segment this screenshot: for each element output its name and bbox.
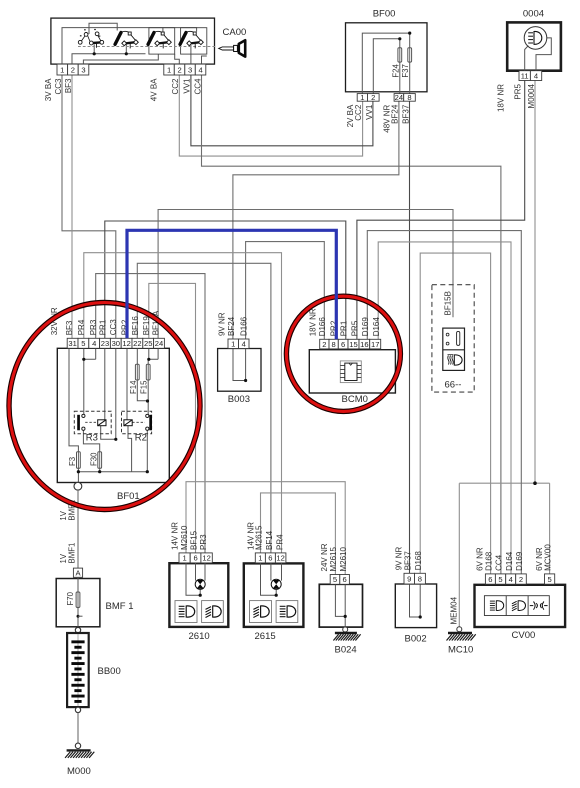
svg-text:M2615: M2615 bbox=[254, 525, 263, 550]
svg-text:8: 8 bbox=[418, 574, 422, 583]
svg-text:F37: F37 bbox=[401, 64, 410, 77]
wire BF16 (BF01 pin22 to 2615 pin6) bbox=[137, 263, 271, 553]
wire R2 coil out bbox=[128, 426, 132, 472]
svg-text:2: 2 bbox=[322, 340, 326, 349]
fuse F30 bbox=[98, 452, 102, 469]
svg-text:15: 15 bbox=[349, 340, 357, 349]
svg-text:VV1: VV1 bbox=[365, 104, 374, 120]
svg-text:F30: F30 bbox=[89, 452, 98, 466]
svg-text:BF19: BF19 bbox=[142, 316, 151, 336]
switch S1 (rotary light switch) bbox=[78, 29, 103, 48]
svg-text:25: 25 bbox=[144, 339, 152, 348]
headlamp unit 2610 bbox=[169, 563, 228, 627]
fuse F15 bbox=[146, 364, 150, 380]
ground circle MC10 bbox=[457, 627, 462, 632]
svg-text:BF3: BF3 bbox=[64, 78, 73, 93]
connector B002 pins bbox=[404, 573, 425, 584]
wire BF19 (BF01 pin25 to 2610 pin6) bbox=[149, 283, 196, 553]
wire MCV00 (junction to CV00 pin5b) bbox=[549, 483, 551, 574]
junction 2610 bbox=[199, 594, 202, 597]
svg-text:24V NR: 24V NR bbox=[320, 543, 329, 571]
svg-text:2615: 2615 bbox=[255, 631, 276, 642]
svg-text:F14: F14 bbox=[129, 380, 138, 394]
high beam icon 2610 bbox=[179, 606, 195, 617]
wire CC2 (ignition switch pin2g2 to BF00 pin1) bbox=[179, 75, 362, 156]
low beam icon 2610 bbox=[206, 606, 222, 618]
fog lamp icon 66 bbox=[448, 355, 463, 365]
switch S4 sub-box bbox=[181, 28, 207, 54]
svg-text:BF15: BF15 bbox=[189, 530, 198, 550]
wire D164 (BCM0 pin17 to CV00 pin4) bbox=[378, 242, 511, 574]
connector pin A bbox=[73, 568, 82, 577]
wire bus to output circle bbox=[77, 472, 79, 483]
svg-text:9V NR: 9V NR bbox=[394, 547, 403, 571]
svg-text:9: 9 bbox=[407, 574, 411, 583]
svg-text:F15: F15 bbox=[140, 380, 149, 394]
svg-text:B024: B024 bbox=[335, 645, 357, 656]
connector 2610 pins bbox=[179, 553, 212, 563]
svg-text:M0004: M0004 bbox=[527, 83, 536, 108]
svg-text:6: 6 bbox=[488, 575, 492, 584]
wire R3 coil out bbox=[101, 426, 116, 440]
junction BF01 pins25/24 bbox=[147, 358, 150, 361]
svg-text:2: 2 bbox=[71, 65, 75, 74]
svg-text:D168: D168 bbox=[414, 551, 423, 571]
svg-text:4: 4 bbox=[242, 340, 246, 349]
connector BF00 pins 24 8 bbox=[394, 93, 415, 102]
wire BF24 (BF00 pin24 to B003 pin1) bbox=[233, 101, 399, 339]
relay R2 bbox=[122, 411, 153, 433]
fuse F70 bbox=[76, 592, 80, 608]
svg-text:1: 1 bbox=[258, 554, 262, 563]
svg-text:D169: D169 bbox=[515, 551, 524, 571]
switch S2 bbox=[115, 31, 138, 48]
wire BF3 (ignition switch pin2 to BF01 pin31) bbox=[71, 75, 73, 338]
svg-text:CC3: CC3 bbox=[109, 319, 118, 336]
low beam telltale CV00 bbox=[512, 601, 526, 611]
svg-text:8: 8 bbox=[407, 93, 411, 102]
svg-text:4: 4 bbox=[92, 339, 96, 348]
svg-text:16: 16 bbox=[360, 340, 368, 349]
junction box B024 bbox=[319, 584, 362, 627]
wire internal S4 drop VV1 bbox=[190, 45, 192, 64]
svg-text:24: 24 bbox=[155, 339, 163, 348]
junction bus F3 bbox=[77, 470, 80, 473]
svg-text:CC4: CC4 bbox=[193, 78, 202, 95]
bulb symbol 2610 bbox=[195, 579, 205, 589]
wire BF00 pin2 internal bbox=[373, 39, 400, 94]
wire F14 bottom jog bbox=[137, 380, 147, 401]
wire CC3 (ignition switch pin1 to BF01 pin30) bbox=[62, 75, 116, 338]
low beam icon 2615 bbox=[253, 606, 269, 618]
wire BF01 pin12 to R2 coil bbox=[126, 348, 128, 420]
svg-text:BMF 1: BMF 1 bbox=[106, 601, 134, 612]
svg-text:6V NR: 6V NR bbox=[475, 547, 484, 571]
wire internal CC4 stub bbox=[202, 56, 207, 64]
headlamp unit 0004 outline bbox=[507, 22, 561, 70]
junction BMF1 bbox=[77, 615, 80, 618]
icon cell boxes 2610 bbox=[175, 601, 197, 623]
junction BF00 F24 top bbox=[398, 37, 401, 40]
svg-text:2: 2 bbox=[371, 93, 375, 102]
svg-text:4: 4 bbox=[534, 71, 538, 80]
svg-text:CC3: CC3 bbox=[54, 78, 63, 95]
fuse F24 bbox=[398, 48, 402, 62]
svg-text:F24: F24 bbox=[391, 64, 400, 78]
wire B024 internal bbox=[335, 584, 345, 627]
svg-text:3: 3 bbox=[81, 65, 85, 74]
wire internal top link B bbox=[62, 28, 197, 65]
wire BF00 pin1 internal bbox=[362, 33, 409, 94]
wire 2615 pin12 to lamp bbox=[281, 553, 283, 581]
BF01 output connector circle bbox=[74, 482, 82, 490]
svg-text:3V BA: 3V BA bbox=[44, 78, 53, 101]
svg-text:B002: B002 bbox=[405, 634, 427, 645]
junction BF01 pins5/4 bbox=[82, 358, 85, 361]
wire BF01 pins5/4 join bbox=[84, 348, 96, 359]
connector CV00 pin 5b bbox=[545, 574, 555, 584]
svg-text:4V BA: 4V BA bbox=[149, 78, 158, 101]
svg-text:2610: 2610 bbox=[189, 631, 210, 642]
junction bus R2 bbox=[146, 470, 149, 473]
body control module BCM0 bbox=[309, 350, 395, 393]
svg-text:BF01: BF01 bbox=[117, 491, 140, 502]
svg-text:D169: D169 bbox=[361, 317, 370, 337]
wire internal CC2 stub bbox=[175, 54, 180, 64]
svg-text:1: 1 bbox=[231, 340, 235, 349]
connector BCM0 pins bbox=[320, 339, 381, 349]
svg-text:18V NR: 18V NR bbox=[496, 84, 505, 112]
relay R3 bbox=[74, 411, 111, 433]
svg-text:2: 2 bbox=[519, 575, 523, 584]
svg-text:6: 6 bbox=[342, 575, 346, 584]
IC chip symbol BCM0 bbox=[340, 361, 361, 383]
icon cell boxes 2615 bbox=[250, 601, 272, 623]
wire VV1 (ignition switch pin3g2 to BF00 pin2) bbox=[191, 75, 373, 146]
wire R2 contact to bus bbox=[146, 430, 148, 472]
wire internal S2 drop bbox=[125, 44, 127, 54]
svg-text:PR5: PR5 bbox=[514, 83, 523, 99]
battery cell bars BB00 bbox=[71, 634, 84, 706]
svg-text:31: 31 bbox=[68, 339, 76, 348]
high beam icon 2615 bbox=[280, 606, 296, 617]
svg-text:6: 6 bbox=[341, 340, 345, 349]
svg-text:1: 1 bbox=[60, 65, 64, 74]
svg-text:F70: F70 bbox=[66, 591, 75, 605]
svg-text:M2610: M2610 bbox=[339, 546, 348, 571]
svg-text:17: 17 bbox=[371, 340, 379, 349]
junction bus F30 bbox=[98, 470, 101, 473]
svg-text:F3: F3 bbox=[68, 457, 77, 466]
junction 2615 bbox=[275, 594, 278, 597]
svg-text:BF15B: BF15B bbox=[444, 291, 453, 315]
mechanical link dashed line bbox=[78, 46, 216, 48]
svg-text:3: 3 bbox=[188, 65, 192, 74]
connector CA00 group1 pins bbox=[57, 64, 89, 75]
wire join to F15 bbox=[147, 359, 149, 364]
svg-text:BCM0: BCM0 bbox=[342, 394, 368, 405]
wire BB00 to ground bbox=[77, 713, 79, 744]
svg-text:BF37: BF37 bbox=[403, 551, 412, 571]
svg-text:12: 12 bbox=[202, 554, 210, 563]
wire BF01 pin23 to R3 coil bbox=[104, 348, 106, 420]
wire D168 (B002 pin8 to CV00 pin6) bbox=[420, 253, 490, 574]
svg-text:CC2: CC2 bbox=[171, 78, 180, 95]
junction BF00 F37 top bbox=[408, 31, 411, 34]
svg-text:11: 11 bbox=[521, 71, 529, 80]
svg-text:6: 6 bbox=[268, 554, 272, 563]
switch S3 sub-box bbox=[149, 28, 175, 54]
connector circle BB00 bottom bbox=[75, 707, 80, 712]
headlamp symbol 0004 bbox=[524, 27, 547, 50]
wire BMF1 internal bottom bbox=[77, 608, 79, 627]
svg-text:BF24: BF24 bbox=[227, 316, 236, 336]
connector 0004 pins bbox=[519, 71, 542, 81]
svg-text:4: 4 bbox=[509, 575, 513, 584]
svg-text:1: 1 bbox=[360, 93, 364, 102]
svg-text:CV00: CV00 bbox=[512, 630, 536, 641]
svg-text:5: 5 bbox=[547, 575, 551, 584]
junction R3/pin30 bbox=[114, 438, 117, 441]
ground symbol M000 bbox=[65, 750, 94, 758]
svg-text:BMF1: BMF1 bbox=[67, 543, 76, 564]
svg-text:66--: 66-- bbox=[445, 380, 462, 391]
wire BMF1 internal top bbox=[77, 577, 79, 592]
svg-text:PR4: PR4 bbox=[275, 534, 284, 550]
wire PR2 blue (BF01 pin12 to BCM0 pin8) bbox=[127, 230, 336, 339]
wire 1V BMF1 segment bbox=[77, 490, 79, 568]
svg-text:PR1: PR1 bbox=[98, 319, 107, 335]
fog unit inner box bbox=[443, 328, 465, 370]
wire PR5 (0004 pin11 to BCM0 pin15) bbox=[357, 81, 525, 340]
svg-text:PR1: PR1 bbox=[340, 320, 349, 336]
svg-text:MEM04: MEM04 bbox=[450, 596, 459, 624]
svg-text:BF14: BF14 bbox=[265, 530, 274, 550]
wire PR4 (BF01 pin5 to 2615 pin12) bbox=[84, 253, 282, 553]
wire internal lower link bbox=[83, 54, 158, 64]
fuse F37 bbox=[408, 48, 412, 62]
junction M0004/MEM04/MCV00 bbox=[533, 481, 537, 485]
wire BF01 ground bus bbox=[77, 471, 148, 473]
svg-text:BF37: BF37 bbox=[401, 104, 410, 124]
junction F14/F15 bbox=[146, 399, 149, 402]
wire 0004 pin11 internal bbox=[525, 46, 529, 71]
wire 2610 pin12 to lamp bbox=[204, 553, 206, 581]
wire M2610 (2610 pin1 to B024 pin6) bbox=[186, 482, 345, 575]
switch S4 bbox=[180, 31, 203, 48]
svg-text:BF3: BF3 bbox=[65, 320, 74, 335]
svg-text:D166: D166 bbox=[318, 317, 327, 337]
wire 2615 lamp stem bbox=[261, 553, 277, 595]
svg-text:PR3: PR3 bbox=[89, 319, 98, 335]
svg-text:8: 8 bbox=[331, 340, 335, 349]
wire PR3 (BF01 pin4 to 2610 pin12) bbox=[96, 274, 205, 553]
key symbol CA00 bbox=[219, 40, 246, 56]
svg-text:D164: D164 bbox=[372, 317, 381, 337]
wire BF01 pins25/24 join bbox=[149, 348, 158, 359]
position light telltale CV00 bbox=[530, 602, 548, 610]
ground circle B024 bbox=[343, 627, 348, 632]
wire F24 top bbox=[399, 39, 401, 48]
wire M0004 horizontal bus bbox=[459, 482, 549, 484]
connector box B003 bbox=[218, 349, 261, 392]
svg-text:12: 12 bbox=[122, 339, 130, 348]
svg-text:R3: R3 bbox=[86, 433, 98, 444]
svg-text:M2615: M2615 bbox=[329, 546, 338, 571]
svg-text:2: 2 bbox=[177, 65, 181, 74]
fuse box BF00 outline bbox=[346, 23, 428, 92]
svg-text:1: 1 bbox=[167, 65, 171, 74]
wire F24 bottom bbox=[399, 62, 401, 94]
svg-text:M000: M000 bbox=[67, 766, 91, 777]
wire R3 contact to F30 bbox=[83, 430, 99, 452]
battery BB00 outline bbox=[67, 633, 89, 707]
wire MEM04 (junction to MC10 ground) bbox=[458, 483, 460, 627]
wire join to R3 contact bbox=[83, 359, 85, 414]
wire BF01 pin31 to F3 bbox=[69, 348, 78, 451]
wire internal top link A bbox=[89, 23, 117, 34]
connector 2615 pins bbox=[255, 553, 286, 563]
svg-text:R2: R2 bbox=[135, 433, 147, 444]
ground symbol B024 bbox=[333, 633, 360, 641]
wire M0004 (0004 pin4 to junction) bbox=[534, 81, 536, 484]
high beam telltale CV00 bbox=[490, 601, 504, 611]
connector BF01 pins bbox=[67, 338, 164, 348]
wire internal S1 drop bbox=[93, 45, 95, 54]
switch S3 bbox=[148, 31, 171, 48]
wire F15 to R2 contact bbox=[147, 380, 149, 414]
wire BF37 (BF00 pin8 to B002 pin9) bbox=[409, 101, 411, 573]
svg-text:30: 30 bbox=[112, 339, 120, 348]
wire 2615 pin6 to lamp bbox=[270, 553, 272, 581]
connector circle BMF1/BB00 bbox=[75, 627, 80, 632]
svg-text:5: 5 bbox=[498, 575, 502, 584]
wire 2610 pin6 to lamp bbox=[195, 553, 197, 581]
junction B003 bbox=[244, 379, 247, 382]
svg-text:1: 1 bbox=[182, 554, 186, 563]
wire M2615 (2615 pin1 to B024 pin5) bbox=[261, 493, 336, 575]
fuse/relay box BF01 outline bbox=[57, 348, 169, 482]
svg-text:12: 12 bbox=[276, 554, 284, 563]
svg-text:D168: D168 bbox=[484, 551, 493, 571]
svg-text:PR4: PR4 bbox=[77, 319, 86, 335]
svg-text:6V NR: 6V NR bbox=[535, 547, 544, 571]
svg-text:D166: D166 bbox=[239, 316, 248, 336]
highlight ellipse around BCM0 bbox=[286, 296, 400, 411]
wire B003 internal bbox=[233, 349, 246, 381]
svg-text:PR5: PR5 bbox=[350, 320, 359, 336]
svg-text:9V NR: 9V NR bbox=[218, 312, 227, 336]
wire BF01 pin22 to F14 bbox=[136, 348, 138, 364]
wire CC4 (ignition switch pin4g2 to CV00 pin5) bbox=[202, 75, 501, 574]
svg-text:MCV00: MCV00 bbox=[544, 544, 553, 571]
wire B002 internal bbox=[410, 584, 421, 617]
svg-text:BB00: BB00 bbox=[98, 666, 121, 677]
svg-text:MC10: MC10 bbox=[448, 645, 473, 656]
fuse holder BMF1 bbox=[56, 579, 100, 627]
instrument cluster CV00 bbox=[475, 585, 566, 627]
wire 0004 pin4 internal bbox=[536, 38, 551, 71]
connector BF00 pins 1 2 bbox=[357, 93, 379, 102]
junction switch S1 bbox=[93, 52, 96, 55]
wire F37 bottom bbox=[409, 62, 411, 94]
headlamp unit 2615 bbox=[244, 563, 304, 627]
wire PR1 (BF01 pin23 to BCM0 pin6) bbox=[105, 221, 346, 339]
svg-text:BF00: BF00 bbox=[373, 9, 396, 20]
wire F3 to bus bbox=[77, 468, 79, 471]
switch unit CA00 outline bbox=[51, 18, 215, 64]
svg-text:23: 23 bbox=[101, 339, 109, 348]
svg-text:18V NR: 18V NR bbox=[308, 308, 317, 336]
connector box B002 bbox=[395, 584, 436, 628]
optional unit 66 dashed outline bbox=[432, 285, 474, 392]
svg-text:BF16: BF16 bbox=[131, 316, 140, 336]
wire 2610 lamp stem bbox=[186, 553, 200, 595]
svg-text:4: 4 bbox=[198, 65, 202, 74]
wire internal bus switch bbox=[72, 54, 146, 75]
connector circle M000 bbox=[75, 743, 80, 748]
svg-text:BF24: BF24 bbox=[391, 104, 400, 124]
wire BF15A (BF01 pin24 to optional fog unit 66) bbox=[158, 210, 453, 339]
svg-text:PR3: PR3 bbox=[199, 534, 208, 550]
connector B003 pins bbox=[228, 339, 249, 349]
fuse F3 bbox=[77, 452, 81, 469]
connector CV00 pins bbox=[485, 574, 526, 584]
junction switch S2 bbox=[125, 52, 128, 55]
svg-text:6: 6 bbox=[193, 554, 197, 563]
svg-text:14V NR: 14V NR bbox=[170, 522, 179, 550]
wire F37 top bbox=[409, 33, 411, 48]
ground symbol MC10 bbox=[447, 633, 476, 641]
wire D166 (B003 pin4 to BCM0 pin2) bbox=[246, 242, 325, 340]
wire F30 to bus bbox=[99, 468, 101, 471]
connector B024 pins bbox=[330, 575, 349, 585]
svg-text:5: 5 bbox=[81, 339, 85, 348]
svg-text:CC2: CC2 bbox=[354, 104, 363, 121]
svg-text:22: 22 bbox=[133, 339, 141, 348]
svg-text:CC4: CC4 bbox=[495, 554, 504, 571]
wire D169 (BCM0 pin16 to CV00 pin2) bbox=[367, 231, 521, 574]
svg-text:0004: 0004 bbox=[523, 9, 544, 20]
highlight ellipse around BF01 bbox=[9, 303, 200, 510]
fuse F14 bbox=[135, 364, 139, 380]
svg-text:B003: B003 bbox=[228, 394, 250, 405]
svg-text:M2610: M2610 bbox=[180, 525, 189, 550]
svg-text:CA00: CA00 bbox=[223, 27, 247, 38]
svg-text:5: 5 bbox=[333, 575, 337, 584]
svg-text:VV1: VV1 bbox=[183, 78, 192, 94]
wire BF01 pin30 down bbox=[115, 348, 117, 439]
CV00 icon strip bbox=[484, 596, 549, 616]
svg-text:D164: D164 bbox=[505, 551, 514, 571]
svg-text:24: 24 bbox=[395, 93, 403, 102]
connector CA00 group2 pins bbox=[164, 64, 206, 75]
bulb symbol 2615 bbox=[271, 579, 281, 589]
junction B002 bbox=[419, 615, 422, 618]
junction B024 bbox=[344, 615, 347, 618]
